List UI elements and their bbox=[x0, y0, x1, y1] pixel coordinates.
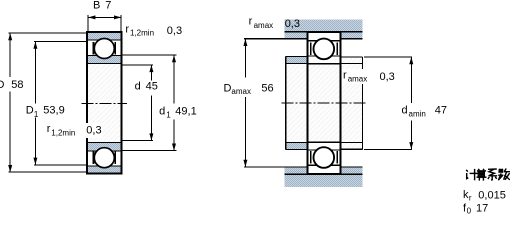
svg-text:1: 1 bbox=[34, 110, 39, 119]
svg-text:r: r bbox=[249, 15, 253, 27]
svg-text:d: d bbox=[159, 105, 165, 117]
svg-text:r: r bbox=[469, 193, 472, 202]
svg-text:D: D bbox=[26, 105, 34, 117]
svg-text:17: 17 bbox=[476, 202, 488, 214]
svg-text:amin: amin bbox=[409, 109, 426, 118]
svg-text:amax: amax bbox=[254, 21, 274, 30]
svg-text:0,015: 0,015 bbox=[478, 189, 506, 201]
svg-text:amax: amax bbox=[231, 87, 251, 96]
svg-text:1,2min: 1,2min bbox=[51, 128, 75, 137]
svg-text:B: B bbox=[93, 0, 100, 11]
svg-text:47: 47 bbox=[435, 104, 447, 116]
svg-text:d: d bbox=[135, 80, 141, 92]
svg-text:49,1: 49,1 bbox=[175, 105, 196, 117]
svg-text:1: 1 bbox=[166, 111, 171, 120]
svg-text:58: 58 bbox=[11, 79, 23, 91]
svg-text:0: 0 bbox=[467, 207, 472, 216]
svg-text:amax: amax bbox=[348, 74, 368, 83]
svg-text:r: r bbox=[343, 70, 347, 82]
svg-text:D: D bbox=[224, 82, 232, 94]
svg-text:56: 56 bbox=[261, 82, 273, 94]
svg-text:45: 45 bbox=[146, 80, 158, 92]
svg-text:D: D bbox=[0, 79, 5, 91]
svg-text:d: d bbox=[402, 104, 408, 116]
svg-text:1,2min: 1,2min bbox=[130, 29, 154, 38]
svg-text:0,3: 0,3 bbox=[380, 71, 395, 83]
svg-text:53,9: 53,9 bbox=[43, 105, 64, 117]
svg-text:r: r bbox=[125, 23, 129, 35]
svg-text:0,3: 0,3 bbox=[167, 25, 182, 37]
svg-text:7: 7 bbox=[105, 0, 111, 11]
svg-text:0,3: 0,3 bbox=[285, 18, 300, 30]
svg-text:r: r bbox=[47, 123, 51, 135]
svg-text:0,3: 0,3 bbox=[86, 125, 101, 137]
